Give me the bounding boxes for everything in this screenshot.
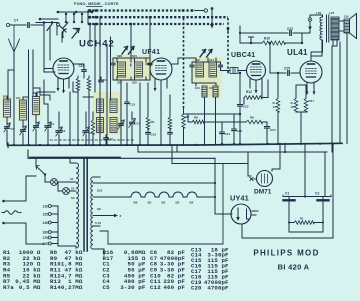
svg-text:170: 170 (42, 236, 48, 240)
wire B+ long vertical (331, 46, 333, 152)
svg-text:C11: C11 (103, 78, 108, 82)
svg-text:C10: C10 (79, 64, 85, 68)
wire y183 (93, 182, 215, 184)
IF1 trimmer c (149, 58, 151, 62)
svg-text:C2: C2 (315, 192, 319, 196)
coil L2 (20, 100, 27, 120)
bus verticals (138, 145, 177, 164)
transformer primary winding (76, 163, 79, 248)
svg-text:C1: C1 (285, 192, 289, 196)
capacitor C22 (239, 73, 241, 104)
bus left tie (87, 11, 89, 25)
wire x110 (110, 37, 112, 100)
antenna coil shading L3 (31, 95, 41, 117)
shield dashed vertical left (183, 18, 185, 108)
shield arrow (226, 28, 230, 32)
coil L1 (4, 99, 11, 117)
heater wire with lamp humps (93, 192, 215, 197)
svg-text:C5: C5 (11, 127, 15, 131)
wire oscillator grid column (69, 92, 71, 145)
svg-text:14: 14 (273, 105, 277, 109)
X arrow (107, 215, 116, 217)
svg-text:C20: C20 (237, 129, 243, 133)
bus contact dots (89, 9, 92, 12)
IF2 lower resistor shading (201, 84, 221, 97)
svg-text:S3: S3 (71, 196, 75, 200)
svg-text:S10: S10 (97, 189, 103, 193)
capacitor C21 (221, 122, 223, 131)
svg-text:C21: C21 (225, 132, 231, 136)
capacitor C20 (233, 114, 235, 128)
IF2 damping resistor boxes (202, 86, 207, 97)
variable capacitor C2 (58, 112, 60, 129)
IF2 trimmer b (220, 62, 222, 64)
svg-text:0,5 MΩ: 0,5 MΩ (19, 284, 41, 291)
capacitor C7 (10, 24, 26, 26)
wire column x28 (28, 50, 30, 145)
svg-text:123: 123 (195, 86, 200, 90)
electrolytic C2 (322, 197, 324, 200)
tube UF41 (150, 58, 172, 80)
mains plug (2, 211, 21, 215)
band switch wire row1 (57, 11, 92, 13)
svg-text:C24: C24 (270, 128, 276, 132)
mains switch feed (30, 157, 120, 159)
svg-text:S1: S1 (70, 177, 74, 181)
svg-text:125: 125 (42, 213, 48, 217)
svg-text:B4: B4 (190, 201, 194, 205)
svg-text:B6: B6 (134, 201, 138, 205)
UL41 grid lead (299, 72, 301, 73)
svg-text:BI 420 A: BI 420 A (278, 263, 310, 272)
wire bus medie (dashed) (88, 16, 228, 18)
resistor R4 (88, 76, 90, 78)
mains switch (36, 166, 45, 175)
UBC41 grid wire + coupling cap (221, 70, 231, 72)
oscillator coil shading (93, 92, 122, 135)
wire x37 (37, 92, 55, 96)
wire x140 (139, 83, 141, 145)
trimmer C14 (131, 112, 133, 120)
svg-text:S2: S2 (71, 187, 75, 191)
bus B+ y152 (138, 151, 327, 153)
oscillator coil L7 (110, 99, 117, 113)
svg-text:122: 122 (195, 58, 200, 62)
svg-text:DM71: DM71 (254, 189, 272, 196)
svg-text:S21: S21 (132, 54, 137, 58)
IF1 frame wires (117, 58, 146, 80)
IF2 trimmer a (191, 62, 193, 64)
shield dashed vertical right (227, 18, 229, 75)
svg-text:S 18: S 18 (95, 221, 101, 225)
svg-text:140: 140 (42, 221, 48, 225)
svg-text:FONO- MEDIE - CORTE: FONO- MEDIE - CORTE (74, 2, 119, 6)
antenna terminal (6, 23, 9, 26)
svg-text:110: 110 (43, 205, 48, 209)
wire x161 UF41 cathode (160, 80, 162, 145)
resistor R14 (277, 73, 279, 98)
wire x215 down (214, 158, 216, 214)
svg-text:L27: L27 (329, 11, 335, 15)
antenna coil shading L2 (18, 98, 28, 122)
svg-text:B3: B3 (176, 201, 180, 205)
svg-text:B5: B5 (148, 201, 152, 205)
svg-text:C5: C5 (103, 284, 111, 291)
svg-text:C12: C12 (108, 137, 114, 141)
trimmer C5 (6, 117, 8, 125)
wire maze c (83, 96, 93, 98)
oscillator coil L9 (110, 118, 117, 133)
chassis outline (100, 164, 248, 245)
wire bus corte (dashed) (88, 23, 224, 25)
wire x270 (269, 43, 271, 73)
capacitor C13 (126, 83, 128, 101)
wire grid column (301, 33, 303, 43)
wire corner x44 (44, 50, 55, 72)
resistor R7 (183, 108, 185, 114)
IF1 trimmer b (130, 64, 132, 66)
trimmer C3 (22, 120, 24, 128)
mains wire A (3, 176, 36, 201)
output transformer core (327, 15, 329, 42)
cap bracket rail (283, 195, 331, 197)
caps bottom wire (289, 231, 323, 233)
svg-text:R1: R1 (300, 217, 304, 221)
capacitor C12 (105, 135, 107, 137)
svg-text:C12: C12 (150, 284, 161, 291)
switch feed wires (36, 19, 58, 23)
capacitor C10 (82, 70, 87, 72)
resistor R16 (295, 85, 297, 98)
svg-text:R12: R12 (246, 90, 252, 94)
wire maze b (73, 82, 78, 92)
oscillator coil L8 (97, 118, 104, 133)
svg-text:3-30 pF: 3-30 pF (120, 284, 146, 291)
speaker (344, 19, 350, 33)
wire B+ to caps (304, 143, 306, 196)
svg-text:16: 16 (291, 105, 295, 109)
wire antenna down (13, 52, 15, 145)
wire IF1 riser b (149, 17, 151, 58)
resistor R1 (91, 120, 94, 134)
bus y158 (28, 150, 215, 158)
svg-text:C6: C6 (16, 96, 20, 100)
fuse S1 (45, 175, 51, 183)
switch rotor contact (57, 23, 60, 26)
wire y114 (184, 113, 241, 115)
switch wafer verticals (66, 14, 82, 23)
IF transformer T1 shading (114, 55, 153, 81)
capacitor C24 (266, 122, 268, 126)
svg-text:160: 160 (42, 231, 48, 235)
secondary taps (93, 177, 107, 255)
coil L3 (33, 97, 40, 115)
UBC41 grid cap stub (249, 37, 254, 43)
svg-text:R9: R9 (250, 116, 254, 120)
svg-text:C2: C2 (62, 129, 66, 133)
tap bus vertical (58, 206, 76, 248)
tube UBC41 (247, 61, 266, 80)
wire left column (8, 70, 14, 100)
IF2 winding B (209, 62, 217, 77)
IF1 winding B (135, 62, 143, 77)
svg-text:UF41: UF41 (142, 49, 160, 56)
gang dashed line (50, 139, 135, 141)
DM71 x mark (250, 178, 253, 181)
svg-text:0,27MΩ: 0,27MΩ (61, 284, 83, 291)
antenna coil shading L1 (2, 96, 12, 119)
UBC41 pin leads (250, 79, 262, 98)
resistor R2 (77, 76, 79, 78)
wire coil top links (7, 80, 48, 104)
electrolytic C1 (288, 197, 290, 200)
svg-text:S9: S9 (97, 207, 101, 211)
variable capacitor C4 (85, 112, 87, 129)
return wire (242, 143, 333, 238)
svg-text:UL41: UL41 (287, 48, 308, 57)
oscillator coil L6 (97, 99, 104, 113)
variable arrows IF1 (122, 47, 128, 55)
wire x50 (49, 32, 51, 60)
UL41 plate to transformer (311, 40, 322, 61)
wire IF1 winding return (120, 80, 122, 145)
transformer core (84, 159, 87, 251)
svg-text:460 pF: 460 pF (163, 284, 185, 291)
tube DM71 (257, 171, 273, 187)
antenna symbol (9, 25, 20, 52)
svg-text:C22: C22 (243, 105, 249, 109)
mains wire B (3, 223, 44, 244)
UL41 pin leads (307, 82, 314, 93)
UF41 pin leads (155, 79, 167, 92)
svg-text:220: 220 (42, 242, 48, 246)
resistor R6 + capacitor C18 (169, 95, 171, 117)
wire DM71 feed (284, 143, 286, 152)
svg-text:R15: R15 (264, 37, 270, 41)
svg-text:S20: S20 (117, 54, 122, 58)
svg-text:S22: S22 (117, 81, 122, 85)
svg-text:C13: C13 (130, 103, 136, 107)
svg-text:C1: C1 (51, 122, 55, 126)
svg-text:x: x (120, 214, 122, 218)
UY41 leads (215, 213, 232, 215)
svg-text:C20: C20 (191, 284, 202, 291)
svg-text:124: 124 (209, 58, 214, 62)
IF2 frame wires (178, 58, 216, 86)
wire maze a (33, 82, 50, 100)
wire speaker return (346, 33, 348, 144)
output transformer secondary (331, 17, 339, 40)
tube UCH42 (53, 58, 74, 79)
wire y122 (204, 121, 246, 123)
capacitor C11 (100, 77, 102, 80)
wire x100 (99, 17, 101, 145)
B+ feed dot and arrow (308, 18, 312, 22)
oscillator arrow symbol (72, 29, 80, 39)
variable capacitor C1 (47, 104, 49, 124)
svg-text:R5: R5 (151, 120, 155, 124)
svg-text:C14: C14 (135, 122, 141, 126)
svg-text:UCH42: UCH42 (79, 39, 115, 50)
wire x95 (94, 24, 96, 92)
svg-text:C7: C7 (14, 19, 18, 23)
UCH42 plate lead (74, 64, 84, 69)
wire x107 (106, 45, 108, 145)
svg-text:UBC41: UBC41 (231, 52, 255, 59)
svg-text:1P: 1P (3, 95, 7, 99)
bus y163 (173, 163, 248, 165)
trimmer C9 (120, 113, 122, 123)
node bus ends (182, 9, 185, 12)
IF2 winding A (196, 62, 204, 77)
UCH42 grid lead (44, 56, 53, 69)
svg-text:B2: B2 (162, 201, 166, 205)
IF1 trimmer a (112, 58, 114, 62)
tube UY41 (231, 204, 251, 224)
AVC tap wire with arrow (211, 9, 213, 27)
output transformer primary (320, 17, 323, 40)
svg-text:S16: S16 (344, 15, 349, 19)
variable arrows IF2 (200, 50, 206, 58)
DM71 box wires (248, 143, 280, 176)
resistor R5 + capacitor C19 (147, 83, 149, 117)
wire plate UBC to C23 (240, 26, 288, 43)
svg-text:S25: S25 (132, 81, 137, 85)
speaker wires (339, 21, 344, 31)
switch arms (47, 23, 68, 33)
svg-text:C19: C19 (151, 133, 157, 137)
wafer drop wires (44, 23, 90, 61)
IF1 winding A (118, 62, 126, 77)
wire UBC41 plate down (262, 80, 268, 98)
transformer secondary down wires (333, 40, 337, 46)
wire plate bottom (311, 40, 323, 56)
ground bus left end (7, 143, 9, 148)
resistor R17 (305, 85, 307, 98)
bus junction dots (13, 144, 15, 146)
transformer secondary winding (91, 177, 93, 249)
IF transformer T2 shading (192, 58, 222, 84)
ground bus (8, 143, 342, 145)
wire column x33 (32, 50, 34, 96)
wire bus fono (dashed) (88, 9, 195, 11)
svg-text:L26: L26 (316, 11, 322, 15)
svg-text:R7a: R7a (3, 284, 14, 291)
UCH42 pin leads (58, 78, 69, 92)
fuse S2 (58, 182, 63, 191)
svg-text:UY41: UY41 (230, 194, 249, 203)
tube UL41 (300, 61, 322, 83)
trimmer C8 (35, 115, 37, 125)
wire OT return (339, 42, 341, 144)
wire IF1 riser a (130, 24, 132, 58)
UF41 grid/plate leads (146, 58, 178, 64)
svg-text:4700pF: 4700pF (207, 284, 229, 291)
svg-text:R14: R14 (50, 284, 61, 291)
transformer top wires (310, 15, 323, 17)
coil hook (63, 29, 66, 38)
svg-text:R8: R8 (194, 116, 198, 120)
cathode network join (296, 85, 306, 144)
svg-text:PHILIPS MOD: PHILIPS MOD (253, 249, 319, 258)
svg-text:R17: R17 (309, 99, 315, 103)
svg-text:C25: C25 (284, 67, 290, 71)
